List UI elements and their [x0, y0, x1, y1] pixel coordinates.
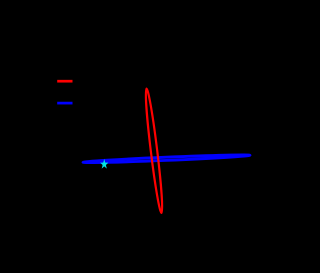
- legend red line sample: [57, 80, 72, 83]
- legend blue line sample: [57, 102, 72, 105]
- blue flat ellipse: [83, 154, 250, 164]
- cyan star marker: [100, 159, 108, 169]
- red narrow ellipse: [143, 88, 164, 213]
